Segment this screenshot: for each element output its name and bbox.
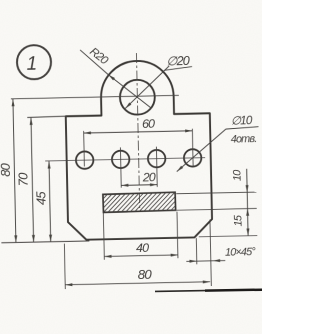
- right extension line plate bottom: [199, 236, 257, 237]
- dim 60 extension lines: [83, 131, 86, 166]
- part number balloon circle: [17, 45, 52, 80]
- horizontal centerline and 80-dim extension: [11, 95, 179, 99]
- dim 40 line: [104, 255, 178, 257]
- 70 extension line: [27, 116, 66, 117]
- svg-text:∅20: ∅20: [166, 54, 190, 68]
- svg-text:40: 40: [136, 241, 149, 255]
- chamfer dim line with outside arrows: [186, 260, 225, 263]
- dim 60 line: [84, 131, 193, 133]
- dim 15 right: [246, 209, 249, 216]
- svg-text:1: 1: [26, 54, 36, 75]
- dim 40 extension lines: [102, 213, 105, 260]
- svg-text:∅10: ∅10: [231, 114, 253, 127]
- four holes D10: [76, 151, 94, 169]
- svg-text:80: 80: [138, 267, 153, 282]
- svg-text:4отв.: 4отв.: [231, 133, 257, 146]
- dim 80 bottom line: [65, 282, 210, 285]
- right extension line slot top: [176, 192, 256, 194]
- svg-text:45: 45: [33, 191, 48, 206]
- dim 80 bottom extension lines: [63, 244, 66, 289]
- dim 20 line: [121, 184, 157, 187]
- svg-text:80: 80: [0, 162, 13, 177]
- hatched slot 40x10: [103, 192, 176, 212]
- dim 20 extension lines: [119, 147, 122, 187]
- chamfer dim 10x45 extension line: [195, 238, 198, 264]
- svg-text:60: 60: [142, 117, 155, 131]
- page rule bottom right: [155, 290, 205, 293]
- holes centerline / 45-dim extension: [45, 158, 205, 161]
- leader D20: [124, 66, 170, 109]
- dim 70 left: [31, 118, 34, 242]
- right extension line slot bottom: [177, 208, 257, 210]
- plate outline with R20 boss and 10x45 chamfers: [65, 59, 213, 240]
- svg-text:20: 20: [142, 170, 156, 184]
- dim 10 right: [247, 169, 248, 236]
- dim 80 left: [13, 99, 16, 242]
- leader D10 4 holes: [176, 129, 227, 172]
- bottom extension line for left dims: [1, 241, 89, 243]
- hole D20: [120, 79, 156, 115]
- svg-text:70: 70: [16, 172, 31, 187]
- vertical centerline: [136, 53, 139, 212]
- svg-text:10×45°: 10×45°: [225, 246, 257, 259]
- dim 45 left: [49, 161, 51, 241]
- leader R20: [80, 49, 108, 75]
